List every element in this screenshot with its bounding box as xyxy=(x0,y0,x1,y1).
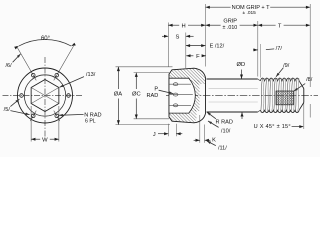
60-degree angular dimension arc xyxy=(19,39,72,46)
svg-text:/13/: /13/ xyxy=(86,72,96,78)
wire horizontal centerline of head end view xyxy=(3,95,84,97)
ext line socket depth xyxy=(185,33,187,69)
svg-text:/8/: /8/ xyxy=(306,77,313,83)
socket corner lines and radius ellipses xyxy=(169,83,191,85)
wire 60-deg centerline xyxy=(54,46,74,80)
dimension NOM GRIP + T xyxy=(206,6,231,8)
svg-text:± .010: ± .010 xyxy=(223,25,238,31)
svg-text:F: F xyxy=(196,54,200,60)
technical drawing: socket head fastener, two views xyxy=(0,0,320,157)
svg-text:RAD: RAD xyxy=(146,93,158,99)
svg-text:/10/: /10/ xyxy=(221,129,231,135)
svg-text:P: P xyxy=(154,86,158,92)
svg-text:± .015: ± .015 xyxy=(243,10,257,16)
svg-text:S: S xyxy=(175,34,179,40)
wire vertical centerline of head end view xyxy=(44,57,46,137)
six corner-radius circles (N RAD 6 PL) xyxy=(67,94,71,98)
shank body xyxy=(207,78,258,80)
head section hatch: top band xyxy=(169,68,206,84)
head outside diameter circle xyxy=(18,68,73,123)
dimension E /12/ xyxy=(186,45,206,47)
leader for P RAD xyxy=(159,90,174,93)
svg-text:W: W xyxy=(42,138,48,144)
head section hatch: strip right of socket bowl xyxy=(189,80,200,111)
wire 240-deg centerline xyxy=(30,111,36,121)
dimension K xyxy=(199,115,201,143)
thread runout xyxy=(258,79,261,81)
wire side view centerline xyxy=(166,95,318,97)
leader for /13/ xyxy=(60,77,84,88)
wire 300-deg centerline xyxy=(54,111,60,121)
dimension OA (head dia) xyxy=(116,66,173,68)
head chamfer circle xyxy=(24,75,65,116)
dimension OC xyxy=(134,72,169,74)
hex socket cavity in section xyxy=(169,78,195,113)
svg-text:R RAD: R RAD xyxy=(215,119,232,125)
head section outline xyxy=(169,68,206,123)
svg-text:/6/: /6/ xyxy=(5,63,12,69)
ext line washer face xyxy=(205,4,207,67)
svg-text:60°: 60° xyxy=(41,36,51,42)
head section hatch: bottom band xyxy=(169,108,197,123)
dimension GRIP xyxy=(206,24,221,26)
dimension T (thread length) xyxy=(258,24,276,26)
svg-text:/5/: /5/ xyxy=(4,107,11,113)
self-locking element patch xyxy=(276,91,294,105)
dimension H (head height) xyxy=(168,24,179,26)
svg-text:K: K xyxy=(212,138,216,144)
svg-text:J: J xyxy=(153,132,156,138)
svg-text:ØC: ØC xyxy=(132,92,141,98)
dimension J xyxy=(167,124,169,137)
svg-text:E /12/: E /12/ xyxy=(210,44,225,50)
threaded portion xyxy=(260,78,299,81)
dimension F xyxy=(186,55,193,57)
ext line head face xyxy=(167,23,169,67)
leader /5/ to lower-left circle xyxy=(10,111,29,115)
wire spokes to hex socket corners xyxy=(45,88,59,96)
svg-text:GRIP: GRIP xyxy=(223,18,237,24)
thread flank lines xyxy=(261,78,263,112)
leader for /6/ xyxy=(13,54,21,62)
bolt end chamfer and face xyxy=(299,81,304,88)
wire 120-deg centerline xyxy=(17,46,37,80)
svg-text:/9/: /9/ xyxy=(283,63,290,69)
svg-text:U X 45° ± 15°: U X 45° ± 15° xyxy=(254,124,291,130)
ext line chamfer xyxy=(303,103,305,129)
svg-text:ØA: ØA xyxy=(114,92,123,98)
dimension S xyxy=(162,35,168,37)
hex socket xyxy=(31,80,59,112)
W socket width dimension xyxy=(30,106,32,142)
ext line bolt end xyxy=(309,4,311,87)
svg-text:T: T xyxy=(278,23,282,29)
svg-text:6 PL: 6 PL xyxy=(85,119,96,125)
svg-text:/11/: /11/ xyxy=(218,145,227,151)
svg-text:/7/: /7/ xyxy=(276,46,283,52)
leader /5/ to left circle xyxy=(10,99,19,107)
ext line thread start xyxy=(259,44,261,78)
faint gauge lines on shank xyxy=(209,88,258,90)
ext line grip end xyxy=(257,21,259,77)
svg-text:ØD: ØD xyxy=(237,62,246,68)
leader for N RAD xyxy=(59,113,84,116)
svg-text:H: H xyxy=(182,23,186,29)
